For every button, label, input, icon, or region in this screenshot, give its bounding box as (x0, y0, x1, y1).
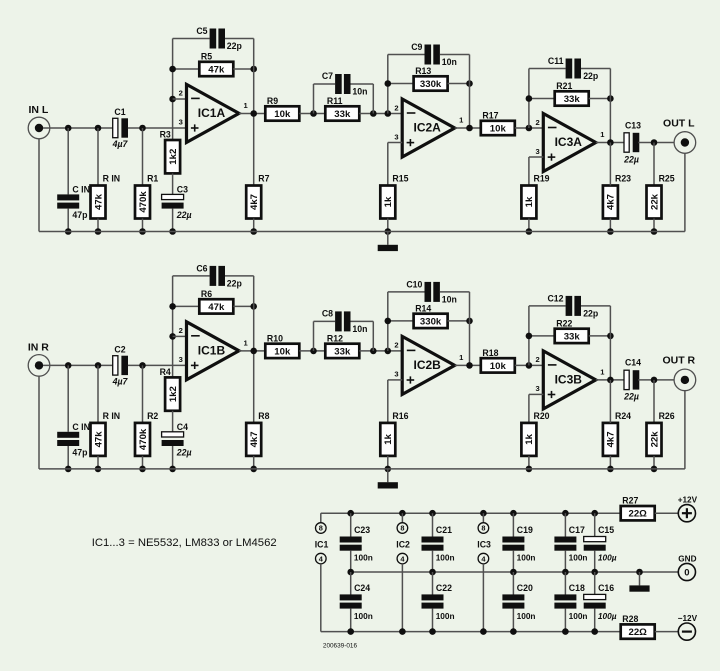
capacitor C3 22µ (162, 194, 184, 208)
resistor R11 33k (325, 96, 359, 121)
wire GND rail (351, 571, 679, 573)
resistor R27 22Ω (621, 496, 655, 521)
svg-text:2: 2 (535, 355, 539, 364)
resistor R12 33k (325, 333, 359, 358)
capacitor C1 4µ7 (113, 118, 128, 137)
wire out1 (239, 113, 265, 115)
wire C17 upper (564, 513, 566, 536)
wire R13 left (388, 320, 414, 322)
svg-text:22Ω: 22Ω (629, 509, 648, 520)
svg-text:4k7: 4k7 (606, 194, 617, 210)
node R1-gnd (139, 466, 146, 473)
svg-text:C IN: C IN (72, 185, 90, 195)
wire fb1 right column (253, 39, 255, 186)
ground symbol supply (629, 572, 649, 592)
wire R19 down (528, 219, 530, 232)
svg-text:R4: R4 (160, 367, 171, 377)
wire fb3 right column (609, 306, 611, 380)
capacitor C9 10n (425, 45, 440, 65)
node R25-gnd (651, 228, 658, 235)
resistor R7 4k7 (246, 174, 269, 219)
wire C23 upper (350, 513, 352, 536)
node pin2 IC1 (169, 96, 176, 103)
svg-text:R18: R18 (482, 348, 498, 358)
wire R11 to IC2 (359, 350, 402, 352)
svg-text:R9: R9 (267, 96, 278, 106)
node pin2 IC2 (385, 110, 392, 117)
svg-text:GND: GND (678, 554, 696, 563)
svg-text:8: 8 (319, 524, 323, 533)
svg-text:C23: C23 (354, 525, 370, 535)
wire R23 down (609, 219, 611, 232)
pin 8 IC2 (397, 523, 408, 534)
capacitor C6 22p (210, 266, 225, 286)
wire fb2 right column (469, 55, 471, 129)
node CIN-gnd (65, 466, 72, 473)
connector OUT L (663, 117, 696, 153)
svg-text:IN L: IN L (28, 104, 48, 116)
wire C20 lower (512, 609, 514, 632)
wire C9 rail right (440, 291, 470, 293)
wire pin3 IC3 down (528, 157, 530, 186)
wire R25 up (653, 380, 655, 423)
svg-text:10k: 10k (490, 361, 507, 372)
wire R1 down (142, 456, 144, 469)
wire R21 right (589, 335, 611, 337)
svg-text:1k: 1k (383, 433, 394, 444)
svg-text:47k: 47k (208, 64, 225, 75)
svg-text:22µ: 22µ (623, 392, 639, 402)
svg-text:C4: C4 (177, 422, 188, 432)
node R15-gnd (385, 466, 392, 473)
node C7 right (370, 348, 377, 355)
svg-text:R IN: R IN (103, 411, 121, 421)
svg-text:4k7: 4k7 (606, 431, 617, 447)
svg-text:IC1A: IC1A (198, 106, 226, 120)
terminal GND (678, 554, 696, 580)
svg-text:2: 2 (535, 118, 539, 127)
svg-text:C22: C22 (436, 583, 452, 593)
svg-text:47k: 47k (93, 193, 104, 210)
node out2 (466, 125, 473, 132)
svg-text:22Ω: 22Ω (629, 627, 648, 638)
svg-text:22µ: 22µ (176, 210, 192, 220)
node R5 left (169, 66, 176, 73)
wire fb3 left column (528, 69, 530, 129)
power section (315, 510, 679, 635)
wire C9 rail right (440, 54, 470, 56)
node C18 bot (562, 628, 569, 635)
wire C3 down (172, 446, 174, 469)
svg-text:3: 3 (179, 355, 183, 364)
resistor R16 1k (380, 411, 408, 456)
node C16 bot (591, 628, 598, 635)
wire IC3 pin8 up (482, 513, 484, 523)
svg-text:C17: C17 (569, 525, 585, 535)
node C17 mid (562, 569, 569, 576)
wire C11 rail left (529, 305, 566, 307)
pin 4 IC3 (478, 553, 489, 564)
svg-text:2: 2 (394, 103, 398, 112)
svg-text:1k2: 1k2 (168, 149, 179, 165)
node R1-gnd (139, 228, 146, 235)
resistor R13 330k (414, 66, 448, 91)
wire C24 upper (350, 572, 352, 595)
op-amp IC1A (179, 84, 249, 142)
svg-text:2: 2 (179, 89, 183, 98)
node R25-gnd (651, 466, 658, 473)
svg-text:22k: 22k (649, 193, 660, 210)
wire pin3 IC3 stub (529, 393, 543, 395)
node R5 right (250, 66, 257, 73)
wire IC3 pin4 down (482, 564, 484, 632)
wire C19 upper (512, 513, 514, 536)
wire C7 rail left (314, 320, 336, 322)
node input-CIN (65, 362, 72, 369)
wire C9 rail left (388, 54, 425, 56)
svg-text:100n: 100n (569, 552, 588, 562)
node C20 bot (510, 628, 517, 635)
resistor R25 22k (647, 174, 675, 219)
wire R1 up (142, 128, 144, 186)
wire C19 lower (512, 551, 514, 572)
node C19 top (510, 510, 517, 517)
node CIN-gnd (65, 228, 72, 235)
node IC3 pin8 (480, 510, 487, 517)
wire C5 rail left (173, 38, 210, 40)
node R19-gnd (526, 228, 533, 235)
svg-text:22p: 22p (227, 279, 242, 289)
svg-text:R25: R25 (659, 174, 675, 184)
svg-text:10k: 10k (490, 123, 507, 134)
wire pin3 IC3 stub (529, 156, 543, 158)
capacitor C2 4µ7 (113, 356, 128, 375)
node IC2 pin8 (399, 510, 406, 517)
svg-text:C3: C3 (177, 185, 188, 195)
node R23-gnd (607, 466, 614, 473)
svg-text:10n: 10n (352, 324, 367, 334)
svg-text:IC1: IC1 (315, 540, 329, 550)
capacitor C5 22p (210, 29, 225, 49)
wire R5 left (173, 68, 200, 70)
svg-text:R12: R12 (327, 333, 343, 343)
wire C21 upper (432, 513, 434, 536)
node out3 (607, 139, 614, 146)
svg-text:8: 8 (481, 524, 485, 533)
resistor R17 10k (481, 110, 515, 135)
resistor R IN 47k (91, 174, 121, 219)
wire pin3 IC2 stub (388, 379, 402, 381)
capacitor C20 100n (502, 594, 524, 608)
wire R25 down (653, 456, 655, 469)
node C3-gnd (169, 466, 176, 473)
wire fb1 right column (253, 276, 255, 423)
connector OUT R (662, 355, 695, 391)
capacitor C14 22µ (624, 370, 639, 389)
wire C16 lower (594, 609, 596, 632)
capacitor C19 100n (502, 537, 524, 551)
wire OUT vertical (684, 153, 686, 231)
wire C13 to OUT (638, 379, 675, 381)
wire R19 down (528, 456, 530, 469)
svg-text:3: 3 (394, 132, 398, 141)
svg-text:C19: C19 (517, 525, 533, 535)
svg-text:C20: C20 (517, 583, 533, 593)
wire R7 down (253, 456, 255, 469)
svg-text:R19: R19 (534, 174, 550, 184)
svg-text:2: 2 (179, 326, 183, 335)
wire RIN up (97, 128, 99, 186)
wire R9-R11 (299, 113, 325, 115)
wire out1 (239, 350, 265, 352)
svg-text:3: 3 (535, 147, 539, 156)
capacitor C13 22µ (624, 133, 639, 152)
wire C22 upper (432, 572, 434, 595)
svg-text:IN R: IN R (28, 341, 49, 353)
node R21 right (607, 333, 614, 340)
svg-text:22p: 22p (227, 41, 242, 51)
resistor R4 1k2 (160, 367, 180, 411)
resistor R5 47k (199, 51, 233, 76)
wire C7 rail right (351, 320, 374, 322)
node out2 (466, 362, 473, 369)
node pin2 IC2 (385, 348, 392, 355)
node R7-gnd (250, 466, 257, 473)
op-amp IC2B (394, 336, 464, 394)
svg-text:C21: C21 (436, 525, 452, 535)
resistor R28 22Ω (621, 614, 655, 639)
wire fb2 right column (469, 292, 471, 366)
svg-text:33k: 33k (564, 94, 581, 105)
wire R5 right (233, 305, 253, 307)
svg-text:IC2A: IC2A (414, 121, 442, 135)
resistor R1 470k (135, 174, 158, 219)
wire R1 down (142, 219, 144, 232)
svg-text:OUT R: OUT R (662, 355, 695, 367)
svg-text:R20: R20 (534, 411, 550, 421)
svg-text:100µ: 100µ (598, 552, 617, 562)
wire R5 left (173, 305, 200, 307)
svg-text:IC3A: IC3A (555, 135, 583, 149)
node pin2 IC3 (526, 362, 533, 369)
node input-CIN (65, 125, 72, 132)
svg-text:100n: 100n (517, 611, 536, 621)
svg-text:C11: C11 (548, 56, 564, 66)
svg-text:470k: 470k (138, 191, 149, 213)
node C21 top (429, 510, 436, 517)
svg-text:1k: 1k (524, 196, 535, 207)
svg-text:R17: R17 (482, 110, 498, 120)
pin 8 IC1 (316, 523, 327, 534)
node IC2 pin4 (399, 628, 406, 635)
resistor R9 10k (265, 96, 299, 121)
resistor R10 10k (265, 333, 299, 358)
connector IN R (28, 341, 50, 376)
wire C13 to OUT (638, 142, 675, 144)
svg-text:10k: 10k (274, 346, 291, 357)
wire C16 upper (594, 572, 596, 595)
wire pin2 stub (173, 335, 187, 337)
svg-text:R2: R2 (147, 411, 158, 421)
svg-text:C9: C9 (411, 42, 422, 52)
wire R7 down (253, 219, 255, 232)
svg-text:33k: 33k (334, 109, 351, 120)
wire C15 upper (594, 513, 596, 536)
svg-text:33k: 33k (334, 346, 351, 357)
wire C1 to opamp (128, 127, 187, 129)
wire C7 left leg (313, 84, 315, 114)
wire CIN up (67, 365, 69, 431)
op-amp IC2A (394, 99, 464, 157)
capacitor C12 22p (566, 296, 581, 316)
capacitor C24 100n (340, 594, 362, 608)
wire out3 (596, 142, 624, 144)
node R13 right (466, 80, 473, 87)
resistor R22 33k (555, 318, 589, 343)
wire fb2 left column (387, 55, 389, 114)
svg-text:47p: 47p (72, 448, 87, 458)
resistor R8 4k7 (246, 411, 269, 456)
svg-text:R8: R8 (258, 411, 269, 421)
node IC3 pin4 (480, 628, 487, 635)
svg-text:47k: 47k (93, 431, 104, 448)
wire C7 left leg (313, 321, 315, 351)
svg-text:R21: R21 (556, 81, 572, 91)
wire R1 up (142, 365, 144, 423)
wire IC1 pin4 down (320, 564, 322, 632)
node C19 mid (510, 569, 517, 576)
wire C5 rail left (173, 275, 210, 277)
capacitor C IN 47p (57, 432, 79, 446)
wire IC2 pin4 down (401, 564, 403, 632)
svg-text:10n: 10n (352, 86, 367, 96)
svg-text:33k: 33k (564, 331, 581, 342)
resistor R19 1k (521, 174, 549, 219)
node C21 mid (429, 569, 436, 576)
node C1-R1 (139, 125, 146, 132)
wire C22 lower (432, 609, 434, 632)
wire R21 right (589, 98, 611, 100)
wire pin3 IC2 down (387, 143, 389, 186)
svg-text:330k: 330k (420, 79, 442, 90)
wire ground rail (39, 468, 685, 470)
wire R17 to IC3 (515, 127, 544, 129)
op-amp IC3A (535, 114, 605, 172)
wire IN to C-series (43, 127, 112, 129)
node C22 bot (429, 628, 436, 635)
svg-text:10n: 10n (442, 57, 457, 67)
node input-RIN (95, 125, 102, 132)
wire C21 lower (432, 551, 434, 572)
svg-text:100n: 100n (436, 552, 455, 562)
node R13 left (385, 318, 392, 325)
ground symbol (378, 232, 398, 252)
wire RIN down (97, 456, 99, 469)
capacitor C4 22µ (162, 432, 184, 446)
svg-text:C8: C8 (322, 309, 333, 319)
node C23 top (347, 510, 354, 517)
svg-text:100µ: 100µ (598, 611, 617, 621)
svg-text:C7: C7 (322, 71, 333, 81)
resistor R14 330k (414, 303, 448, 328)
wire RIN up (97, 365, 99, 423)
wire R3-C3 (172, 173, 174, 194)
svg-text:C10: C10 (406, 279, 422, 289)
svg-text:R1: R1 (147, 174, 158, 184)
capacitor C17 100n (554, 537, 576, 551)
resistor R IN 47k (91, 411, 121, 456)
svg-text:1k: 1k (383, 196, 394, 207)
resistor R2 470k (135, 411, 158, 456)
node R23-gnd (607, 228, 614, 235)
wire C5 rail right (225, 38, 254, 40)
node pin2 IC3 (526, 125, 533, 132)
svg-text:100n: 100n (354, 611, 373, 621)
wire R23 up (609, 380, 611, 423)
wire C11 rail right (581, 305, 610, 307)
svg-text:4µ7: 4µ7 (112, 139, 129, 149)
svg-text:C IN: C IN (72, 422, 90, 432)
svg-text:4k7: 4k7 (249, 194, 260, 210)
svg-text:C14: C14 (625, 358, 641, 368)
wire R28 to -12V (655, 631, 679, 633)
node C17 top (562, 510, 569, 517)
capacitor C11 22p (566, 59, 581, 79)
resistor R21 33k (555, 81, 589, 106)
wire C11 rail right (581, 68, 610, 70)
node C15 top (591, 510, 598, 517)
wire R21 left (529, 335, 555, 337)
svg-text:22µ: 22µ (176, 448, 192, 458)
svg-text:R3: R3 (160, 129, 171, 139)
node out1 (250, 348, 257, 355)
svg-text:IC3B: IC3B (555, 373, 583, 387)
node R13 left (385, 80, 392, 87)
node R21 right (607, 95, 614, 102)
node C23 mid (347, 569, 354, 576)
svg-text:R15: R15 (392, 174, 408, 184)
svg-text:C13: C13 (625, 120, 641, 130)
node R21 left (526, 333, 533, 340)
wire R13 right (448, 320, 470, 322)
wire IC1 pin8 up (320, 513, 322, 523)
wire fb3 right column (609, 69, 611, 143)
wire R3-C3 (172, 411, 174, 432)
resistor R6 47k (199, 289, 233, 314)
svg-text:IC1...3 = NE5532, LM833 or LM4: IC1...3 = NE5532, LM833 or LM4562 (92, 537, 277, 549)
wire R15 down (387, 456, 389, 469)
node R7-gnd (250, 228, 257, 235)
svg-text:C16: C16 (598, 583, 614, 593)
wire R25 down (653, 219, 655, 232)
wire C20 upper (512, 572, 514, 595)
wire C7 right leg (372, 84, 374, 114)
svg-text:470k: 470k (138, 428, 149, 450)
svg-text:R13: R13 (415, 66, 431, 76)
wire R15 down (387, 219, 389, 232)
wire CIN down (67, 446, 69, 469)
svg-text:100n: 100n (436, 611, 455, 621)
svg-text:C6: C6 (196, 263, 207, 273)
svg-text:−12V: −12V (678, 614, 698, 623)
svg-text:100n: 100n (354, 552, 373, 562)
svg-text:R22: R22 (556, 318, 572, 328)
svg-text:R7: R7 (258, 174, 269, 184)
wire IN vertical (38, 139, 40, 232)
node R5 right (250, 303, 257, 310)
svg-text:100n: 100n (517, 552, 536, 562)
op-amp IC3B (535, 351, 605, 409)
